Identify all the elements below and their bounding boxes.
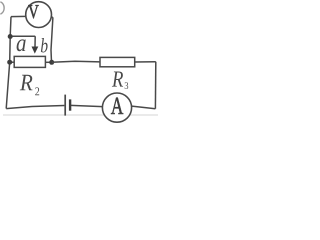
slider arrowhead [32, 47, 39, 54]
resistor R3 box [100, 57, 135, 66]
wire: node to R3 box [52, 61, 100, 62]
wire: battery to bottom left corner [6, 106, 64, 109]
ammeter circle [102, 93, 131, 122]
label R2 subscript 2 [35, 87, 39, 95]
wire: bottom right to ammeter [132, 106, 156, 109]
node dot junction right pot terminal [49, 60, 54, 65]
wire: slider top horizontal [10, 35, 35, 37]
label R2 [20, 75, 33, 91]
wire: R3 to right top corner [135, 61, 156, 63]
slider arrow shaft [34, 36, 36, 47]
wire: voltmeter left lead [11, 15, 26, 17]
wire: right vertical [154, 62, 156, 109]
wire: voltmeter right lead vertical down to node [51, 17, 53, 62]
voltmeter V label [28, 5, 38, 18]
label R3 subscript 3 [125, 82, 128, 89]
wire: left vertical main [6, 17, 11, 109]
wire: ammeter left to battery [71, 105, 103, 106]
faint page shadow line at bottom [3, 114, 158, 116]
label R3 [112, 72, 123, 87]
potentiometer R2 box [14, 56, 45, 67]
battery short plate (negative) [69, 99, 71, 110]
partial circled-label arc (cut off at left edge) [0, 2, 4, 14]
wire: pot left terminal stub [10, 61, 15, 63]
node dot junction left-top [8, 34, 13, 39]
battery long plate (positive) [64, 95, 66, 116]
node dot junction left pot terminal [7, 60, 12, 65]
wire: voltmeter right lead horizontal [51, 16, 53, 18]
wire: pot right terminal stub to node [45, 61, 51, 63]
label b [41, 38, 48, 52]
voltmeter U-V circle [26, 2, 52, 28]
ammeter A label [111, 98, 123, 114]
label a [17, 39, 26, 51]
